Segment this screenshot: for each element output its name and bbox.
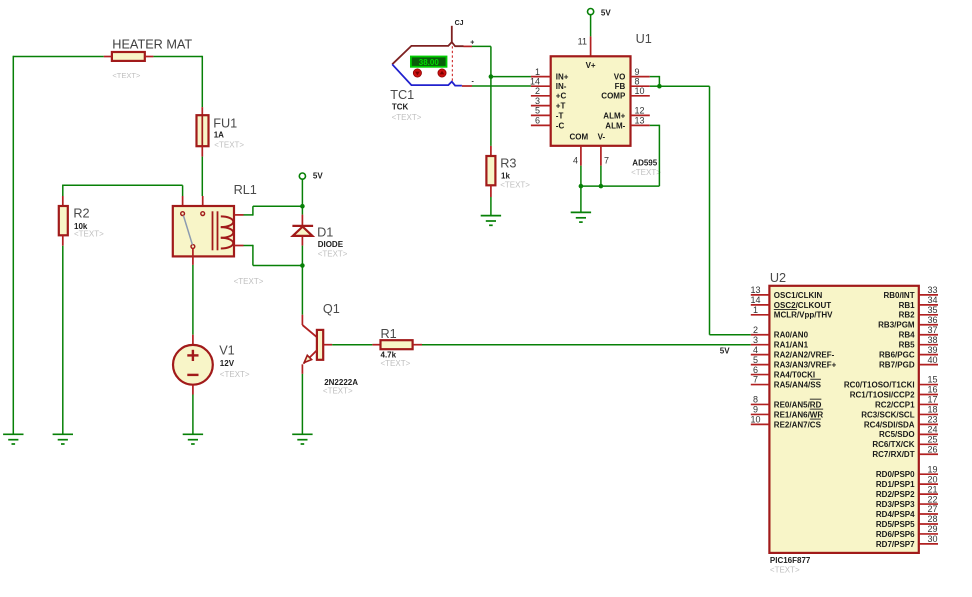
svg-text:35: 35 <box>927 305 937 315</box>
svg-text:R3: R3 <box>500 157 516 171</box>
value 1k <box>501 172 510 181</box>
svg-text:DIODE: DIODE <box>318 240 344 249</box>
svg-text:34: 34 <box>927 295 937 305</box>
Q1 text placeholder <box>323 387 353 396</box>
U2 pin 2 RA0/AN0 <box>751 325 809 340</box>
R1 text placeholder <box>381 359 411 368</box>
svg-text:RD7/PSP7: RD7/PSP7 <box>876 540 915 549</box>
svg-text:<TEXT>: <TEXT> <box>112 71 141 80</box>
svg-text:RD0/PSP0: RD0/PSP0 <box>876 470 915 479</box>
U1 pin 10 COMP <box>601 86 650 101</box>
svg-text:R1: R1 <box>381 327 397 341</box>
U1 pin 6 -C <box>531 116 565 131</box>
svg-text:RB4: RB4 <box>899 331 916 340</box>
U2 pin 40 RB7/PGD <box>879 355 938 370</box>
svg-text:23: 23 <box>927 415 937 425</box>
U2 pin 7 RA5/AN4/SS <box>751 375 822 390</box>
wire <box>490 197 492 216</box>
label TC1 <box>390 88 414 102</box>
svg-text:<TEXT>: <TEXT> <box>631 168 661 177</box>
U2 pin 27 RD4/PSP4 <box>876 504 938 519</box>
svg-text:RC7/RX/DT: RC7/RX/DT <box>872 450 914 459</box>
svg-text:-T: -T <box>556 111 564 120</box>
svg-text:FB: FB <box>615 82 626 91</box>
svg-text:18: 18 <box>927 405 937 415</box>
label CJ <box>455 20 464 27</box>
svg-text:RB1: RB1 <box>899 301 916 310</box>
svg-text:RA2/AN2/VREF-: RA2/AN2/VREF- <box>774 351 835 360</box>
V1 text placeholder <box>220 370 250 379</box>
value TCK <box>392 103 409 112</box>
node <box>657 84 662 89</box>
label V1 <box>219 344 235 358</box>
svg-text:Q1: Q1 <box>323 302 340 316</box>
svg-text:RC0/T1OSO/T1CKI: RC0/T1OSO/T1CKI <box>844 380 915 389</box>
svg-text:RA3/AN3/VREF+: RA3/AN3/VREF+ <box>774 361 837 370</box>
svg-text:<TEXT>: <TEXT> <box>74 229 104 238</box>
heater mat text placeholder <box>112 71 141 80</box>
svg-text:1: 1 <box>535 67 540 77</box>
U2 pin 35 RB2 <box>899 305 938 320</box>
svg-text:<TEXT>: <TEXT> <box>318 250 348 259</box>
svg-text:-C: -C <box>556 121 565 130</box>
wire <box>491 76 531 78</box>
U1 pin 1 IN+ <box>531 67 569 82</box>
wire <box>301 374 303 434</box>
svg-text:19: 19 <box>927 464 937 474</box>
svg-text:RD2/PSP2: RD2/PSP2 <box>876 490 915 499</box>
svg-text:5V: 5V <box>720 347 730 356</box>
svg-text:RB2: RB2 <box>899 311 916 320</box>
transistor Q1 <box>302 315 332 374</box>
wire <box>464 45 473 47</box>
U2 pin 10 RE2/AN7/CS <box>750 415 821 430</box>
thermocouple TC1 <box>392 26 463 86</box>
node <box>489 74 494 79</box>
svg-text:D1: D1 <box>317 226 333 240</box>
svg-text:9: 9 <box>635 67 640 77</box>
U2 pin 25 RC6/TX/CK <box>872 435 938 450</box>
svg-text:<TEXT>: <TEXT> <box>220 370 250 379</box>
battery V1 <box>173 335 213 395</box>
label D1 <box>317 226 333 240</box>
svg-text:+: + <box>470 40 474 47</box>
wire <box>472 46 491 145</box>
U2 pin 17 RC2/CCP1 <box>875 395 938 410</box>
net label 5V <box>720 347 730 356</box>
svg-text:RE1/AN6/WR: RE1/AN6/WR <box>774 410 824 419</box>
svg-text:1k: 1k <box>501 172 510 181</box>
svg-text:RB5: RB5 <box>899 341 916 350</box>
value DIODE <box>318 240 344 249</box>
U2 pin 8 RE0/AN5/RD <box>751 395 822 410</box>
svg-text:IN-: IN- <box>556 82 567 91</box>
svg-text:RC1/T1OSI/CCP2: RC1/T1OSI/CCP2 <box>850 390 915 399</box>
svg-text:25: 25 <box>927 435 937 445</box>
resistor R3 <box>486 146 495 197</box>
wire <box>580 166 582 186</box>
svg-text:15: 15 <box>927 375 937 385</box>
svg-text:<TEXT>: <TEXT> <box>381 359 411 368</box>
U2 pin 19 RD0/PSP0 <box>876 464 938 479</box>
U2 pin 33 RB0/INT <box>883 285 938 300</box>
U1 pin 5 -T <box>531 106 564 121</box>
U1 pin 12 ALM+ <box>603 106 650 121</box>
svg-text:3: 3 <box>535 96 540 106</box>
svg-text:17: 17 <box>927 395 937 405</box>
svg-text:FU1: FU1 <box>213 117 237 131</box>
svg-text:RC2/CCP1: RC2/CCP1 <box>875 400 915 409</box>
U1 pin 7 V- <box>598 132 609 165</box>
svg-text:RA0/AN0: RA0/AN0 <box>774 331 809 340</box>
svg-text:16: 16 <box>927 385 937 395</box>
svg-text:ALM+: ALM+ <box>603 111 625 120</box>
svg-text:24: 24 <box>927 425 937 435</box>
U2 pin 13 OSC1/CLKIN <box>750 285 822 300</box>
svg-text:RD1/PSP1: RD1/PSP1 <box>876 480 915 489</box>
svg-text:V1: V1 <box>219 344 235 358</box>
svg-text:37: 37 <box>927 325 937 335</box>
svg-text:38.00: 38.00 <box>419 58 440 67</box>
node <box>300 263 305 268</box>
U2 pin 4 RA2/AN2/VREF- <box>751 345 835 360</box>
value 2N2222A <box>324 378 358 387</box>
svg-text:+C: +C <box>556 92 567 101</box>
svg-text:COM: COM <box>569 132 588 141</box>
label U2 <box>770 271 786 285</box>
svg-text:27: 27 <box>927 504 937 514</box>
svg-text:28: 28 <box>927 514 937 524</box>
U1 pin 13 ALM- <box>605 116 650 131</box>
svg-text:30: 30 <box>927 534 937 544</box>
svg-text:5V: 5V <box>313 172 323 181</box>
svg-text:TC1: TC1 <box>390 88 414 102</box>
D1 text placeholder <box>318 250 348 259</box>
svg-text:ALM-: ALM- <box>605 121 625 130</box>
diode D1 <box>292 215 313 246</box>
label U1 <box>636 32 652 46</box>
svg-text:4.7k: 4.7k <box>381 350 397 359</box>
resistor R2 <box>59 196 68 246</box>
svg-text:38: 38 <box>927 335 937 345</box>
svg-text:12V: 12V <box>220 359 235 368</box>
svg-text:4: 4 <box>753 345 758 355</box>
svg-text:V+: V+ <box>586 61 596 70</box>
U2 pin 24 RC5/SDO <box>879 425 938 440</box>
U1 text placeholder <box>631 168 661 177</box>
heater mat label <box>112 38 192 52</box>
svg-text:6: 6 <box>753 365 758 375</box>
svg-text:10: 10 <box>750 415 760 425</box>
value 10k <box>74 222 88 231</box>
svg-text:8: 8 <box>635 76 640 86</box>
wire <box>192 265 194 335</box>
svg-text:14: 14 <box>530 76 540 86</box>
wire <box>62 246 64 435</box>
U2 pin 39 RB6/PGC <box>879 345 938 360</box>
value AD595 <box>632 159 657 168</box>
wire <box>12 56 14 435</box>
svg-text:RA4/T0CKI: RA4/T0CKI <box>774 370 815 379</box>
U2 pin 20 RD1/PSP1 <box>876 474 938 489</box>
svg-text:39: 39 <box>927 345 937 355</box>
svg-text:1: 1 <box>753 305 758 315</box>
U2 pin 38 RB5 <box>899 335 938 350</box>
svg-text:+T: +T <box>556 102 566 111</box>
svg-text:RC4/SDI/SDA: RC4/SDI/SDA <box>864 420 915 429</box>
U2 pin 16 RC1/T1OSI/CCP2 <box>850 385 938 400</box>
U2 pin 26 RC7/RX/DT <box>872 444 938 459</box>
wire <box>332 344 372 346</box>
svg-text:U2: U2 <box>770 271 786 285</box>
U2 pin 18 RC3/SCK/SCL <box>861 405 938 420</box>
svg-text:<TEXT>: <TEXT> <box>770 566 800 575</box>
U2 pin 14 OSC2/CLKOUT <box>750 295 831 310</box>
value PIC16F877 <box>770 556 811 565</box>
power terminal 5V <box>588 8 612 17</box>
U1 pin 9 VO <box>614 67 650 82</box>
svg-text:36: 36 <box>927 315 937 325</box>
U2 pin 15 RC0/T1OSO/T1CKI <box>844 375 938 390</box>
U1 label V+ <box>586 61 596 70</box>
ground <box>571 212 591 222</box>
wire <box>650 76 660 86</box>
svg-text:26: 26 <box>927 444 937 454</box>
label R3 <box>500 157 516 171</box>
U2 pin 37 RB4 <box>899 325 938 340</box>
U2 pin 36 RB3/PGM <box>878 315 938 330</box>
U2 pin 3 RA1/AN1 <box>751 335 809 350</box>
power terminal 5V <box>299 172 323 181</box>
svg-text:RD3/PSP3: RD3/PSP3 <box>876 500 915 509</box>
wire <box>600 166 602 186</box>
U1 pin 2 +C <box>531 86 567 101</box>
TC1 text placeholder <box>392 113 422 122</box>
wire <box>590 15 592 37</box>
U1 pin 4 COM <box>569 132 588 165</box>
wire <box>659 86 750 335</box>
U1 pin 14 IN- <box>530 76 567 91</box>
svg-text:29: 29 <box>927 524 937 534</box>
wire <box>301 246 303 315</box>
label FU1 <box>213 117 237 131</box>
label Q1 <box>323 302 340 316</box>
svg-text:40: 40 <box>927 355 937 365</box>
svg-text:RD5/PSP5: RD5/PSP5 <box>876 520 915 529</box>
svg-text:RE2/AN7/CS: RE2/AN7/CS <box>774 420 822 429</box>
wire <box>153 56 202 107</box>
U2 pin 34 RB1 <box>899 295 938 310</box>
wire <box>201 157 203 196</box>
ground <box>183 434 203 444</box>
R3 text placeholder <box>500 181 530 190</box>
svg-text:8: 8 <box>753 395 758 405</box>
svg-text:7: 7 <box>604 156 609 166</box>
U2 pin 29 RD6/PSP6 <box>876 524 938 539</box>
svg-text:5: 5 <box>753 355 758 365</box>
svg-text:20: 20 <box>927 474 937 484</box>
U2 text placeholder <box>770 566 800 575</box>
node <box>579 184 584 189</box>
wire <box>244 245 303 266</box>
svg-text:RE0/AN5/RD: RE0/AN5/RD <box>774 400 822 409</box>
U1 pin 3 +T <box>531 96 566 111</box>
wire <box>244 206 303 215</box>
svg-text:6: 6 <box>535 116 540 126</box>
relay text placeholder <box>234 277 264 286</box>
svg-text:RC3/SCK/SCL: RC3/SCK/SCL <box>861 410 914 419</box>
svg-text:21: 21 <box>927 484 937 494</box>
resistor R1 <box>372 340 422 349</box>
relay RL1 <box>173 196 244 265</box>
node <box>599 184 604 189</box>
svg-text:7: 7 <box>753 375 758 385</box>
svg-text:RC6/TX/CK: RC6/TX/CK <box>872 440 914 449</box>
svg-text:2: 2 <box>535 86 540 96</box>
ground <box>481 216 501 226</box>
svg-text:<TEXT>: <TEXT> <box>500 181 530 190</box>
svg-text:COMP: COMP <box>601 92 626 101</box>
wire <box>301 179 303 214</box>
svg-text:5: 5 <box>535 106 540 116</box>
svg-text:TCK: TCK <box>392 103 409 112</box>
U2 pin 28 RD5/PSP5 <box>876 514 938 529</box>
svg-text:RD4/PSP4: RD4/PSP4 <box>876 510 915 519</box>
label R2 <box>73 206 89 220</box>
svg-text:RD6/PSP6: RD6/PSP6 <box>876 530 915 539</box>
U2 pin 22 RD3/PSP3 <box>876 494 938 509</box>
svg-text:<TEXT>: <TEXT> <box>234 277 264 286</box>
op-amp U1 AD595 body <box>551 56 631 146</box>
wire <box>13 56 103 58</box>
svg-text:VO: VO <box>614 73 626 82</box>
U2 pin 1 MCLR/Vpp/THV <box>751 305 833 320</box>
wire <box>580 186 582 212</box>
wire <box>462 85 472 87</box>
svg-text:RA5/AN4/SS: RA5/AN4/SS <box>774 380 822 389</box>
U2 pin 30 RD7/PSP7 <box>876 534 938 549</box>
svg-text:AD595: AD595 <box>632 159 657 168</box>
U2 pin 6 RA4/T0CKI <box>751 365 815 380</box>
U2 pin 23 RC4/SDI/SDA <box>864 415 938 430</box>
svg-text:10: 10 <box>635 86 645 96</box>
svg-text:12: 12 <box>635 106 645 116</box>
svg-text:OSC1/CLKIN: OSC1/CLKIN <box>774 291 823 300</box>
fuse FU1 <box>197 107 209 157</box>
node <box>300 204 305 209</box>
svg-text:11: 11 <box>578 36 587 46</box>
wire <box>650 85 660 87</box>
svg-text:22: 22 <box>927 494 937 504</box>
svg-text:4: 4 <box>573 156 578 166</box>
microcontroller U2 body <box>769 286 918 553</box>
U2 pin 5 RA3/AN3/VREF+ <box>751 355 837 370</box>
svg-text:OSC2/CLKOUT: OSC2/CLKOUT <box>774 301 831 310</box>
svg-text:IN+: IN+ <box>556 73 569 82</box>
wire <box>581 125 660 186</box>
svg-text:3: 3 <box>753 335 758 345</box>
svg-text:RC5/SDO: RC5/SDO <box>879 430 915 439</box>
svg-text:9: 9 <box>753 405 758 415</box>
svg-text:PIC16F877: PIC16F877 <box>770 556 811 565</box>
svg-text:5V: 5V <box>601 8 611 17</box>
R2 text placeholder <box>74 229 104 238</box>
svg-text:<TEXT>: <TEXT> <box>323 387 353 396</box>
svg-text:CJ: CJ <box>455 20 464 27</box>
svg-text:V-: V- <box>598 132 606 141</box>
svg-text:RB7/PGD: RB7/PGD <box>879 361 915 370</box>
label RL1 <box>234 183 257 197</box>
svg-text:13: 13 <box>635 116 645 126</box>
fuse text placeholder <box>214 141 244 150</box>
label plus <box>470 40 474 47</box>
svg-text:<TEXT>: <TEXT> <box>214 141 244 150</box>
resistor HEATER MAT <box>104 52 154 61</box>
value 12V <box>220 359 235 368</box>
pin 11 V+ <box>578 36 591 56</box>
label R1 <box>381 327 397 341</box>
wire to U2 RA1 <box>422 344 751 346</box>
label minus <box>472 79 475 86</box>
svg-text:14: 14 <box>750 295 760 305</box>
U2 pin 9 RE1/AN6/WR <box>751 405 824 420</box>
svg-text:33: 33 <box>927 285 937 295</box>
U1 pin 8 FB <box>615 76 650 91</box>
value 1A <box>214 130 224 139</box>
svg-text:MCLR/Vpp/THV: MCLR/Vpp/THV <box>774 311 833 320</box>
U2 pin 21 RD2/PSP2 <box>876 484 938 499</box>
svg-text:RB3/PGM: RB3/PGM <box>878 321 915 330</box>
svg-text:RA1/AN1: RA1/AN1 <box>774 341 809 350</box>
svg-text:HEATER MAT: HEATER MAT <box>112 38 192 52</box>
ground <box>3 434 23 444</box>
wire <box>62 185 183 196</box>
svg-text:2N2222A: 2N2222A <box>324 378 358 387</box>
ground <box>292 434 312 444</box>
svg-text:13: 13 <box>750 285 760 295</box>
svg-text:2: 2 <box>753 325 758 335</box>
svg-text:RL1: RL1 <box>234 183 257 197</box>
wire <box>472 85 531 87</box>
svg-text:RB6/PGC: RB6/PGC <box>879 351 915 360</box>
svg-text:1A: 1A <box>214 130 224 139</box>
svg-text:U1: U1 <box>636 32 652 46</box>
svg-text:RB0/INT: RB0/INT <box>883 291 914 300</box>
wire <box>192 395 194 435</box>
svg-text:<TEXT>: <TEXT> <box>392 113 422 122</box>
svg-text:R2: R2 <box>73 206 89 220</box>
value 4.7k <box>381 350 397 359</box>
ground <box>53 434 73 444</box>
